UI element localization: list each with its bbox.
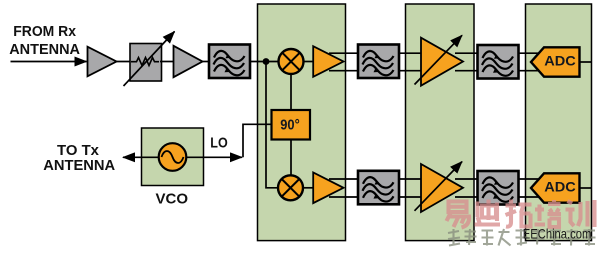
wire I diff lines to VGA1 bbox=[329, 52, 422, 54]
svg-text:LO: LO bbox=[210, 134, 228, 151]
wire F4 to ADC2 under VGA2 bbox=[455, 178, 542, 180]
wire A1 to attenuator bbox=[115, 61, 132, 63]
wire A2 to filter F1 bbox=[203, 61, 210, 63]
mixer M2 bbox=[278, 175, 303, 200]
watermark big char 3 (tuo) bbox=[506, 200, 532, 227]
watermark big char 5 (xun) bbox=[566, 200, 595, 227]
mixer M1 bbox=[279, 49, 304, 74]
green block U2 (VGA IC) bbox=[406, 4, 475, 241]
wire phase shifter to mixer M2 bbox=[290, 140, 292, 176]
svg-text:ANTENNA: ANTENNA bbox=[43, 158, 115, 174]
ADC1 (I channel) bbox=[531, 47, 580, 76]
watermark big char 1 (yi) bbox=[447, 202, 470, 228]
wire M2 to A4 bbox=[303, 187, 314, 189]
watermark big char 4 (pei) bbox=[535, 200, 562, 227]
node J1 (RF split junction) bbox=[263, 58, 270, 65]
phase shifter 90deg box bbox=[272, 110, 311, 140]
amplifier A1 (LNA) bbox=[88, 47, 117, 77]
amplifier A2 bbox=[174, 46, 203, 77]
green block U3 (ADC IC) bbox=[526, 4, 592, 241]
svg-text:VCO: VCO bbox=[156, 190, 189, 207]
wire ADC2 output bbox=[580, 187, 592, 189]
wire Q diff lines to VGA2 bbox=[329, 178, 422, 180]
green block U1 (mixer/quadrature demodulator IC) bbox=[258, 4, 346, 241]
filter F5 bbox=[478, 171, 519, 205]
svg-text:ANTENNA: ANTENNA bbox=[9, 42, 80, 58]
wire junction down to mixer M2 bbox=[266, 62, 278, 188]
VGA1 (variable gain amp, I) bbox=[421, 38, 463, 86]
wire RF input with arrow bbox=[11, 61, 87, 63]
filter F3 bbox=[478, 45, 519, 79]
watermark small gray text row bbox=[448, 229, 596, 246]
wire F2 out handled above; VGA1 input lines under component bbox=[455, 52, 542, 54]
attenuator AT1 (variable) bbox=[130, 44, 162, 82]
svg-text:EEChina.com: EEChina.com bbox=[523, 225, 592, 241]
svg-text:90°: 90° bbox=[280, 117, 300, 133]
wire M1 to A3 bbox=[304, 61, 314, 63]
filter F1 (bandpass) bbox=[209, 45, 250, 79]
amplifier A4 (Q-channel) bbox=[313, 173, 343, 204]
VCO box bbox=[142, 128, 204, 186]
svg-text:ADC: ADC bbox=[544, 180, 576, 195]
wire VCO output left arrow bbox=[123, 156, 142, 158]
wire attenuator to A2 bbox=[160, 61, 174, 63]
filter F4 bbox=[358, 171, 399, 205]
wire LO to phase shifter bbox=[204, 156, 243, 158]
watermark big char 2 (di) bbox=[475, 200, 501, 225]
VGA2 (variable gain amp, Q) bbox=[421, 164, 463, 212]
amplifier A3 (I-channel) bbox=[313, 46, 343, 77]
ADC2 (Q channel) bbox=[531, 173, 580, 202]
filter F2 bbox=[358, 45, 399, 79]
svg-text:TO Tx: TO Tx bbox=[57, 143, 99, 159]
wire M1 to phase shifter bbox=[290, 74, 292, 110]
wire ADC1 output bbox=[580, 61, 592, 63]
wire F1 to mixer M1 bbox=[250, 61, 279, 63]
svg-text:ADC: ADC bbox=[544, 54, 576, 69]
svg-text:FROM Rx: FROM Rx bbox=[13, 24, 76, 40]
